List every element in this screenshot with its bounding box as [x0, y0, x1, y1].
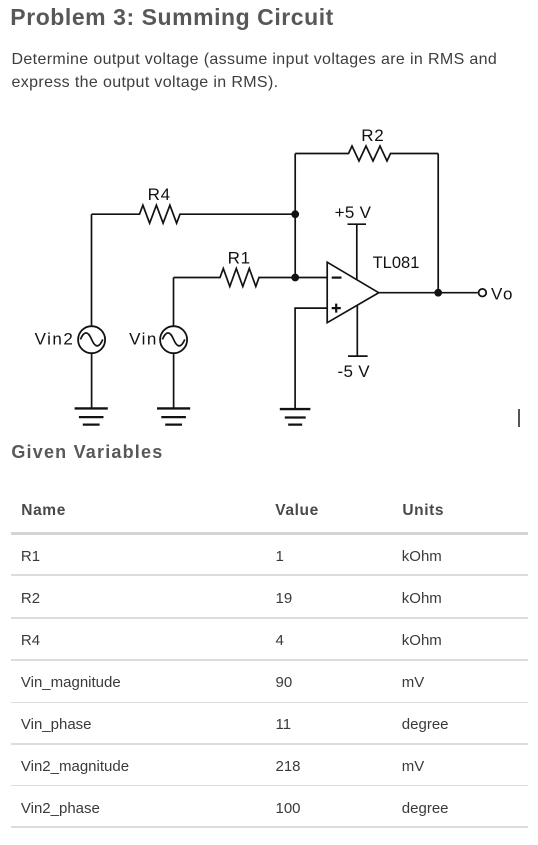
- svg-text:Vin: Vin: [129, 330, 158, 349]
- svg-text:R2: R2: [361, 126, 384, 145]
- svg-text:TL081: TL081: [373, 254, 420, 272]
- svg-text:R1: R1: [228, 248, 251, 267]
- svg-text:R4: R4: [148, 185, 171, 204]
- svg-text:Vo: Vo: [491, 284, 514, 303]
- svg-text:+5 V: +5 V: [335, 203, 372, 222]
- svg-text:-5 V: -5 V: [338, 362, 371, 381]
- svg-text:Vin2: Vin2: [35, 330, 75, 349]
